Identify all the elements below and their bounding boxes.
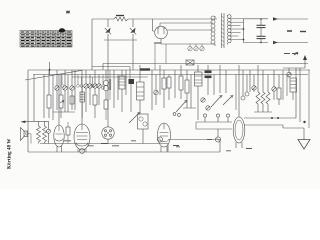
wire rectifier anode top xyxy=(160,23,213,26)
contact circle P1 xyxy=(203,114,206,122)
label WR xyxy=(116,15,124,17)
coil L4 bandpass xyxy=(119,70,125,112)
coil L1 antenna xyxy=(290,78,297,100)
table dark blob xyxy=(59,28,65,32)
wire column x191 xyxy=(183,75,196,109)
wire screen feed xyxy=(92,67,130,80)
frame left outer xyxy=(27,70,29,152)
comb wire c3 xyxy=(80,77,83,87)
wire link coils bottom xyxy=(53,111,75,113)
heater terminal 2 xyxy=(194,44,198,51)
transformer T1 core xyxy=(222,13,225,48)
cathode resistor bypass circle xyxy=(80,149,85,154)
trimmer C8 xyxy=(97,75,101,106)
trimmer C14 xyxy=(47,121,51,143)
coil L2 xyxy=(80,86,85,118)
tube V1 triode xyxy=(54,125,64,152)
wire column x114 xyxy=(113,70,115,108)
tube V2 output pentode xyxy=(74,124,90,152)
wire HT rail upper xyxy=(244,18,269,20)
wire antenna down branch xyxy=(295,68,297,118)
contact circle P5 xyxy=(245,75,249,97)
wire resistor bank bottom xyxy=(254,111,272,113)
resistor R9 zigzag xyxy=(256,65,260,112)
trimmer C1 antenna xyxy=(287,68,291,78)
wire antenna feed xyxy=(283,67,305,69)
rectifier tube V6 xyxy=(155,26,168,39)
wire rectifier anode right xyxy=(167,29,213,31)
resistor R10 zigzag xyxy=(261,70,265,112)
wire to output terminal lower xyxy=(275,42,308,44)
transformer T1 secondary winding xyxy=(228,15,232,45)
wire V5 out row2 xyxy=(244,125,283,128)
resistor R13 coupling xyxy=(66,122,70,144)
capacitor C12 block xyxy=(205,71,212,74)
wire column x250 xyxy=(249,70,251,92)
capacitor C30 xyxy=(257,18,266,27)
frame left inner xyxy=(33,75,35,122)
terminal plug arrow lower xyxy=(273,41,278,45)
resistor R4 xyxy=(104,100,108,120)
wire column x175 xyxy=(174,70,176,98)
wire column x152 xyxy=(151,70,153,110)
main bus top inner xyxy=(33,74,308,76)
switch arm S1 xyxy=(129,113,140,123)
wire column x75 xyxy=(74,70,76,110)
wire column x236 xyxy=(235,75,237,111)
bottom bus lower xyxy=(28,151,168,153)
trimmer C11 xyxy=(154,75,158,106)
wire to output terminal upper xyxy=(275,18,308,20)
label V5 xyxy=(246,148,252,150)
wire column x44 xyxy=(43,75,45,119)
output transformer T2 secondary xyxy=(43,121,47,143)
wire rectifier feed down xyxy=(155,44,166,70)
label V3 xyxy=(101,143,108,145)
resistor R8 xyxy=(185,70,189,108)
table text speckle xyxy=(21,32,72,46)
wire HT rail lower xyxy=(244,42,269,44)
wire earth bus xyxy=(283,127,304,129)
IF transformer box T4 xyxy=(138,114,149,144)
resistor R14 xyxy=(70,96,74,104)
resistor WR (mains dropper) xyxy=(114,17,128,21)
trimmer C16 xyxy=(206,106,210,110)
contact circle P4 xyxy=(241,70,245,100)
comb wire c6 xyxy=(109,70,111,100)
pilot lamp circle left xyxy=(157,137,162,142)
tube V5 RF pentode xyxy=(233,110,245,148)
wire right edge drop xyxy=(299,68,301,122)
svg-text:Körting 48 W: Körting 48 W xyxy=(7,138,13,169)
resistor block on bus xyxy=(186,60,194,65)
coil L3 iron core xyxy=(103,70,110,100)
contact circle P2 xyxy=(216,114,219,122)
wire column x214 xyxy=(213,75,215,96)
wire V5 anode xyxy=(238,65,240,110)
bottom wire loop xyxy=(168,140,220,153)
comb wire c2 xyxy=(77,75,80,88)
resistor R12 xyxy=(277,75,281,106)
output transformer T2 primary xyxy=(37,121,41,143)
wire V1 anode xyxy=(58,75,60,126)
bottom bus upper xyxy=(40,143,168,145)
diagonal lead-in wire xyxy=(25,70,82,80)
trimmer C17 xyxy=(252,75,256,91)
wire row to bottom xyxy=(196,122,232,129)
trimmer C2 xyxy=(55,70,59,110)
junction dot antenna bus xyxy=(303,121,305,123)
trimmer C5 xyxy=(84,70,88,112)
trimmer C7 xyxy=(93,70,97,95)
trimmer C3 xyxy=(63,70,67,112)
resistor R7 xyxy=(179,65,183,99)
capacitor C10 block xyxy=(129,79,135,84)
tube V3 mixer top view xyxy=(102,127,114,139)
main bus top outer xyxy=(28,69,310,71)
switch tick wave band xyxy=(60,101,64,104)
label lamp xyxy=(207,139,212,141)
tube V4 demodulator xyxy=(158,123,171,152)
label 17V xyxy=(154,42,161,44)
wire lamp crossbar xyxy=(104,39,137,41)
wire cap block leads xyxy=(207,65,209,95)
transformer secondary taps xyxy=(230,19,244,40)
wire earth drop xyxy=(303,128,305,140)
wire V5 out row xyxy=(244,117,296,119)
resistor R11 zigzag xyxy=(266,75,270,113)
antenna terminal arrow xyxy=(303,55,307,68)
contact circle P3 xyxy=(226,114,229,122)
trimmer C4 xyxy=(70,70,74,110)
wire speaker feed xyxy=(25,120,49,122)
wire V3 bottom xyxy=(107,139,109,143)
wire V2 anode xyxy=(81,70,83,124)
wire column x226 xyxy=(225,70,227,93)
wire C10 leads xyxy=(130,84,132,112)
speaker terminal arrow xyxy=(21,121,26,124)
wire column x220 xyxy=(219,65,221,93)
trimmer C18 xyxy=(272,70,276,100)
wire column x160 xyxy=(159,65,161,95)
star mark xyxy=(66,10,71,14)
wire column x287 xyxy=(286,75,288,97)
wire rail to rectifier xyxy=(153,19,155,31)
bus mid upper xyxy=(103,64,308,70)
wire column x126 xyxy=(125,70,127,95)
loudspeaker LS xyxy=(21,128,28,141)
wire column x118 xyxy=(117,75,119,101)
comb wire c4 xyxy=(91,77,94,87)
wire column x68 xyxy=(67,75,69,113)
heater terminal 3 xyxy=(200,44,204,51)
switch S2 xyxy=(173,101,187,117)
IF transformer box T5 xyxy=(195,65,203,120)
capacitor C13 block xyxy=(205,76,212,79)
resistor R3 xyxy=(93,95,97,118)
label antenna terminals xyxy=(284,53,298,55)
wire speaker voice coil xyxy=(28,134,32,144)
heater terminal 1 xyxy=(188,44,192,51)
wire column x53 xyxy=(52,75,54,121)
wire column x283 xyxy=(282,70,284,100)
switch arm S4 xyxy=(223,96,233,105)
terminal plug arrow upper xyxy=(273,17,278,21)
ground earth arrow xyxy=(298,140,310,150)
resistor R2 xyxy=(59,75,63,119)
data table top-left xyxy=(20,31,72,48)
label AW xyxy=(300,31,306,33)
capacitor C31 xyxy=(257,28,266,44)
switch arm S3 xyxy=(211,96,222,107)
comb wire c1 xyxy=(61,75,64,88)
resistor R6 xyxy=(167,75,171,101)
wire heater bar xyxy=(161,43,215,45)
bottom value labels xyxy=(64,141,231,151)
resistor R1 xyxy=(47,70,51,118)
bus mid third xyxy=(72,76,148,78)
wire V3 top xyxy=(107,70,109,127)
junction dots out rows xyxy=(271,117,273,119)
pilot lamp circle right xyxy=(215,129,220,142)
label V4 xyxy=(173,145,179,147)
resistor R5 xyxy=(162,70,166,108)
wire stub mains switch xyxy=(49,62,51,75)
wire left mains drop xyxy=(91,19,93,70)
terminal mark mid xyxy=(287,30,292,32)
wire detector row xyxy=(196,121,232,123)
wire rectifier cathode drop xyxy=(160,39,162,44)
transformer T1 primary winding xyxy=(211,16,215,46)
glow lamp U2 xyxy=(130,19,136,70)
trimmer C15 xyxy=(201,98,205,102)
wire mains top rail xyxy=(92,18,217,20)
wire right bank bottom xyxy=(253,88,255,92)
wire secondary vertical link xyxy=(243,19,245,43)
IF transformer box T3 xyxy=(137,65,145,114)
trimmer C6 xyxy=(88,75,92,106)
fuse block on bus xyxy=(140,68,150,70)
wire right edge outer drop xyxy=(308,70,310,128)
comb wire c5 xyxy=(102,75,105,90)
glow lamp U1 xyxy=(105,19,111,70)
antenna terminal diagonal arrow xyxy=(294,53,298,56)
